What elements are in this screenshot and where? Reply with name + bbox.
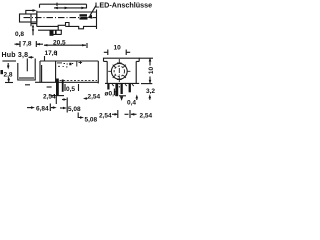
tick near pinB — [113, 89, 115, 96]
body top edge — [37, 11, 97, 13]
stem — [26, 59, 28, 72]
6,84 right marks — [50, 104, 53, 112]
svg-text:6,84: 6,84 — [36, 106, 49, 113]
svg-text:5,08: 5,08 — [85, 117, 98, 124]
front view outline — [104, 58, 140, 61]
texts — [2, 1, 156, 124]
arrow into x67 upper — [62, 99, 64, 101]
bottom notch — [58, 23, 69, 31]
3,2 tick — [141, 83, 152, 85]
body right edge — [97, 61, 99, 83]
leader line — [90, 5, 96, 16]
neck verticals — [40, 61, 42, 82]
5,08 leader — [78, 113, 80, 118]
dim line T2 — [54, 7, 87, 9]
vertical centerline front — [118, 59, 120, 88]
6,84 arrow left — [27, 107, 32, 109]
black blob left — [1, 70, 4, 74]
0,5 dim bars — [65, 84, 79, 91]
circle quadrant ticks — [108, 63, 130, 80]
centerline top view — [24, 17, 97, 19]
hatch band — [56, 79, 97, 81]
svg-text:17,6: 17,6 — [45, 50, 58, 57]
hatch below square — [112, 84, 134, 86]
cap inner vertical — [31, 14, 37, 26]
bottom 2,54 pair arrows — [112, 113, 116, 115]
Hub arrow — [29, 56, 34, 58]
inner left vertical — [55, 61, 57, 82]
svg-text:5,08: 5,08 — [68, 106, 81, 113]
leader arrow — [87, 15, 92, 19]
svg-text:0,4: 0,4 — [127, 100, 136, 107]
svg-text:0,8: 0,8 — [15, 31, 24, 38]
svg-text:Hub 3,8: Hub 3,8 — [2, 52, 29, 59]
0,4 arrow — [136, 95, 139, 99]
svg-text:ø0,5: ø0,5 — [105, 91, 118, 98]
left dim arrows — [7, 63, 9, 67]
dim line T3 — [26, 10, 35, 14]
foot line — [38, 29, 62, 31]
LED pins top view — [80, 14, 88, 16]
pin bottom hook — [51, 95, 65, 97]
front view pins — [107, 83, 109, 89]
ext line x67 — [66, 98, 68, 113]
pinC tick + arrow bottom — [119, 95, 126, 97]
ext to body top — [44, 56, 46, 61]
svg-text:2,54: 2,54 — [88, 94, 101, 101]
circle outer — [111, 63, 127, 79]
svg-text:2,54: 2,54 — [99, 113, 112, 120]
svg-text:3,2: 3,2 — [146, 88, 155, 95]
svg-text:2,54: 2,54 — [43, 94, 56, 101]
svg-text:2,8: 2,8 — [4, 72, 13, 79]
20,5 dim — [44, 43, 87, 48]
svg-text:LED-Anschlüsse: LED-Anschlüsse — [95, 1, 152, 10]
body face — [36, 11, 38, 27]
svg-text:0,5: 0,5 — [66, 86, 75, 93]
svg-text:7,8: 7,8 — [23, 41, 32, 48]
short dash above 2,54 — [47, 86, 52, 88]
0,8 dim arrows — [32, 27, 34, 35]
U cap inner bottom — [19, 77, 34, 79]
arrow T2 left — [54, 7, 58, 10]
circle inner dashed — [114, 66, 124, 76]
body right face — [96, 10, 98, 30]
body bottom edge — [37, 26, 97, 28]
7,8 dim — [15, 41, 44, 47]
small dash below U — [25, 84, 30, 86]
arrow into x67 — [60, 107, 64, 109]
10 top dim — [104, 50, 130, 56]
cap rect top view — [20, 14, 37, 22]
middle view pins — [56, 79, 59, 96]
svg-text:10: 10 — [148, 67, 155, 75]
svg-text:2,54: 2,54 — [140, 113, 153, 120]
tick below pin — [55, 96, 57, 104]
left ext line middle view — [2, 60, 16, 62]
arrow T3 — [33, 9, 37, 12]
pin black top view — [50, 30, 54, 36]
3,2 arrow — [149, 94, 152, 98]
arrow T2 right — [81, 7, 85, 10]
2,54 left arrow (row mid) — [85, 98, 88, 100]
middle body top — [40, 60, 98, 62]
svg-text:20,5: 20,5 — [53, 40, 66, 47]
right 10 vertical dim — [139, 57, 153, 59]
U cap middle view — [18, 59, 35, 81]
svg-text:10: 10 — [114, 45, 122, 52]
dim line T1 top — [40, 3, 87, 9]
body bottom — [35, 81, 98, 83]
17,6 tick — [56, 51, 58, 56]
arrow T2 mid — [65, 7, 69, 10]
interior dots — [57, 61, 82, 67]
